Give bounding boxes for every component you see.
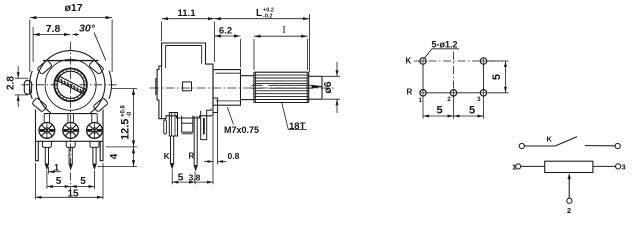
vertical center line of front view bbox=[70, 42, 72, 190]
terminal 3 eyelet bbox=[87, 114, 103, 139]
svg-text:30°: 30° bbox=[79, 23, 96, 35]
resistor element body bbox=[545, 161, 593, 172]
left bracket leg bbox=[36, 141, 39, 160]
svg-text:2: 2 bbox=[567, 206, 571, 215]
dimension 6.2 bbox=[214, 34, 240, 67]
leader M7x0.75 bbox=[227, 107, 233, 125]
mounting plate left edge bbox=[35, 110, 37, 142]
terminal 3 pin bbox=[93, 147, 96, 168]
knurled shaft circle outer bbox=[54, 69, 87, 102]
pad 3 bottom-right bbox=[480, 90, 486, 96]
svg-text:3: 3 bbox=[622, 163, 626, 172]
terminal 1 pin bbox=[45, 147, 48, 168]
svg-text:R: R bbox=[407, 88, 413, 97]
dimension 7.8 bbox=[33, 27, 70, 62]
slot band through knurl bbox=[252, 85, 323, 88]
terminal 2 pin bbox=[69, 147, 72, 168]
svg-text:6.2: 6.2 bbox=[219, 26, 232, 37]
knurled shaft circle inner bbox=[57, 71, 84, 98]
switch pin K (side view) bbox=[169, 113, 177, 169]
dimension 3.8 (middle view) bbox=[195, 117, 213, 184]
shaft slot band at 30 degrees bbox=[55, 75, 88, 95]
svg-text:0.8: 0.8 bbox=[228, 151, 240, 161]
label 12.5 +0.8/-0 bbox=[120, 104, 134, 140]
anti-rotation lug bbox=[213, 98, 218, 113]
dimension 1 (pin width) bbox=[49, 167, 62, 174]
pad 2 bottom-middle bbox=[450, 90, 456, 96]
cover crimp tab top-right bbox=[89, 60, 104, 75]
dimension 5 5 (pin pitch) bbox=[47, 171, 95, 189]
mounting plate bottom edge bbox=[36, 140, 104, 142]
svg-text:5: 5 bbox=[469, 104, 475, 116]
svg-text:1: 1 bbox=[419, 97, 423, 104]
body back thin rib bbox=[155, 78, 157, 95]
knurled shaft section 18T bbox=[254, 72, 309, 102]
wire column 3 bbox=[483, 64, 485, 89]
svg-text:3.8: 3.8 bbox=[189, 173, 201, 183]
body cover circle Ø17 bbox=[36, 51, 105, 113]
label L +0.2/-0.2 bbox=[256, 8, 274, 20]
switch K wire right bbox=[585, 145, 615, 147]
pin R (side view) bbox=[194, 116, 197, 170]
svg-text:5: 5 bbox=[178, 172, 184, 184]
mounting plate top edge bbox=[44, 113, 97, 115]
switch K blade bbox=[555, 137, 577, 146]
svg-text:R: R bbox=[189, 152, 195, 161]
chord (cover top flat edge) bbox=[43, 60, 99, 62]
dimension 2.8 bbox=[15, 66, 29, 107]
svg-text:3: 3 bbox=[477, 96, 481, 103]
terminal 1 eyelet bbox=[39, 114, 55, 139]
svg-text:+0.8: +0.8 bbox=[121, 104, 127, 117]
mounting plate right edge bbox=[102, 110, 104, 142]
dimension 12.5 right side bbox=[106, 89, 138, 147]
pad top-right bbox=[480, 58, 486, 64]
shaft tip bbox=[309, 76, 322, 99]
dimension Ø6 bbox=[323, 62, 341, 113]
terminal circle 3 bbox=[616, 164, 621, 169]
leader 18T bbox=[282, 103, 307, 130]
svg-text:M7x0.75: M7x0.75 bbox=[224, 125, 259, 135]
inner cover ring bbox=[45, 59, 96, 110]
dimension L bbox=[214, 14, 309, 72]
dimension 11.1 bbox=[162, 17, 215, 62]
horizontal center line of front view bbox=[22, 84, 117, 86]
body outline side view bbox=[157, 43, 213, 119]
left side lobe of cover bbox=[30, 71, 32, 99]
svg-text:ø6: ø6 bbox=[322, 81, 334, 93]
terminal 2 pin collar bbox=[66, 141, 75, 147]
dimension I (knurl length) bbox=[254, 35, 308, 70]
switch contact block bbox=[182, 116, 193, 134]
wire bottom row 1-2 bbox=[426, 92, 450, 94]
svg-text:11.1: 11.1 bbox=[178, 8, 197, 19]
30 degree reference line bbox=[94, 33, 106, 61]
svg-text:2: 2 bbox=[447, 96, 451, 103]
pad K top-left bbox=[420, 58, 426, 64]
30 degree arc arrow bbox=[73, 34, 80, 36]
horizontal center line of side view bbox=[150, 87, 334, 89]
svg-text:-0.2: -0.2 bbox=[263, 14, 272, 20]
shaft neck bbox=[241, 76, 254, 100]
dimension 5 5 (pad columns) bbox=[423, 97, 484, 119]
cover crimp tab bottom-right bbox=[93, 98, 108, 113]
dimension 0.8 (lug) bbox=[204, 113, 226, 164]
pad column center line bbox=[453, 52, 455, 98]
pad row center line bbox=[414, 60, 503, 62]
svg-text:1: 1 bbox=[512, 163, 516, 172]
svg-text:ø17: ø17 bbox=[64, 2, 82, 14]
pad 1 bottom-left bbox=[420, 90, 426, 96]
resistor lead 1 bbox=[521, 165, 545, 167]
terminal 1 pin collar bbox=[42, 141, 51, 147]
svg-text:12.5: 12.5 bbox=[120, 119, 132, 140]
terminal 2 eyelet bbox=[63, 114, 79, 139]
resistor lead 3 bbox=[593, 165, 616, 167]
side tab capsule edge-on bbox=[164, 120, 167, 134]
dimension 15 (bracket width) bbox=[36, 163, 104, 199]
svg-text:K: K bbox=[164, 152, 170, 161]
terminal circle 2 bbox=[567, 198, 572, 203]
terminal circle 1 bbox=[516, 164, 521, 169]
switch K terminal right bbox=[615, 143, 620, 148]
wire column 1 bbox=[422, 64, 424, 89]
svg-text:K: K bbox=[547, 135, 553, 144]
pin tips filled bbox=[46, 163, 198, 170]
body inner cover lines bbox=[162, 46, 202, 119]
wire bottom row 2-3 bbox=[457, 92, 481, 94]
terminal 3 pin collar bbox=[90, 141, 99, 147]
svg-text:5-ø1.2: 5-ø1.2 bbox=[432, 40, 458, 50]
svg-text:4: 4 bbox=[109, 153, 120, 159]
svg-text:I: I bbox=[282, 25, 285, 36]
svg-text:5: 5 bbox=[56, 176, 62, 187]
dimension 5 (middle view) bbox=[172, 170, 195, 185]
dimension 5 vertical (pad rows) bbox=[488, 61, 509, 93]
threaded bushing M7 bbox=[213, 70, 241, 106]
cover crimp tab top-left bbox=[37, 60, 52, 75]
svg-text:K: K bbox=[406, 57, 412, 66]
svg-text:1: 1 bbox=[54, 163, 59, 173]
wiper arrow bbox=[568, 173, 571, 198]
svg-text:18T: 18T bbox=[289, 121, 306, 132]
svg-text:L: L bbox=[256, 8, 262, 19]
dimension Ø17 bbox=[30, 16, 112, 72]
dimension 4 right side bbox=[98, 147, 138, 167]
svg-text:-0: -0 bbox=[127, 111, 133, 117]
rivet square on body bbox=[183, 82, 192, 91]
svg-text:7.8: 7.8 bbox=[46, 23, 61, 35]
right bracket leg bbox=[100, 141, 103, 160]
bracket plate edge-on bbox=[201, 109, 211, 140]
switch K wire left bbox=[524, 145, 555, 147]
right side lobe of cover bbox=[109, 71, 111, 99]
svg-text:15: 15 bbox=[67, 189, 79, 200]
cover crimp tab bottom-left bbox=[32, 98, 47, 113]
svg-text:5: 5 bbox=[491, 74, 503, 80]
switch K terminal left bbox=[519, 143, 524, 148]
svg-text:5: 5 bbox=[436, 104, 442, 116]
left capsule tab bbox=[24, 80, 31, 94]
svg-text:2.8: 2.8 bbox=[6, 76, 17, 90]
knurl serration ticks bbox=[54, 69, 87, 102]
leader 5-Ø1.2 bbox=[425, 49, 460, 58]
svg-text:5: 5 bbox=[80, 176, 86, 187]
